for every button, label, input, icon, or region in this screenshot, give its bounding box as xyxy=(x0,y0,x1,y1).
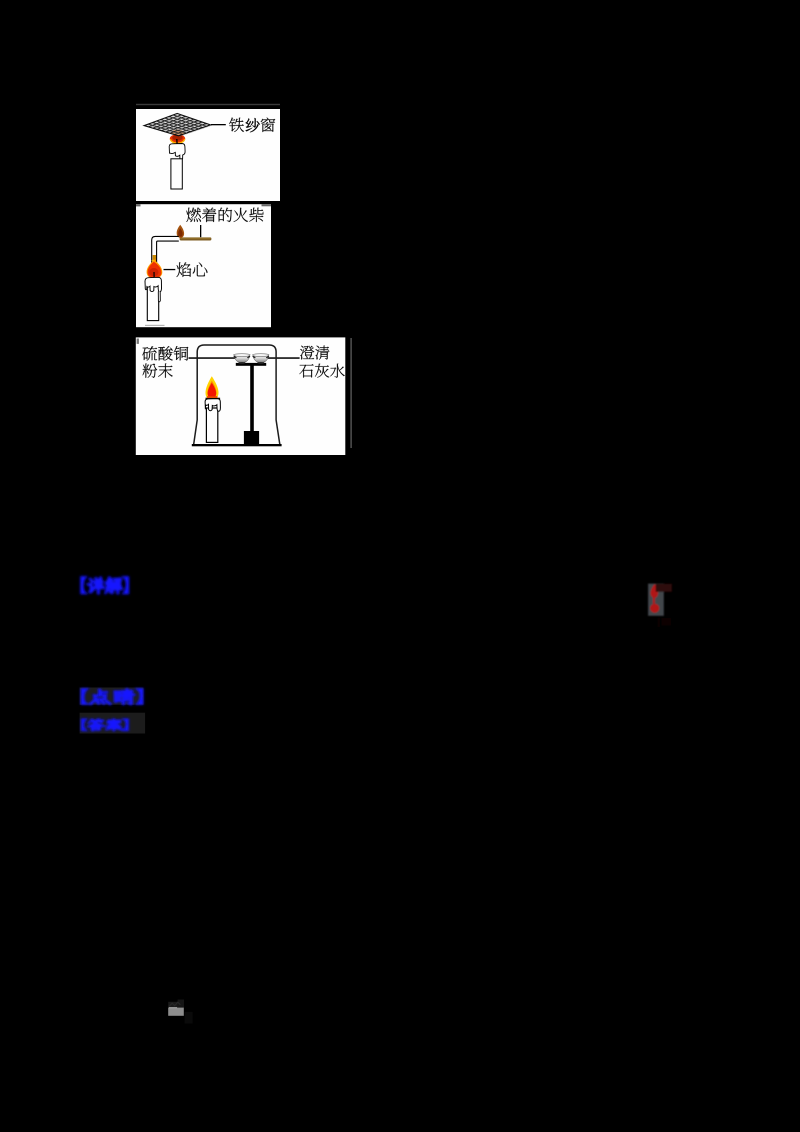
candle flame red core xyxy=(208,383,217,398)
candle flame (figure 3): outer yellow xyxy=(205,376,218,400)
candle body (figure 1) xyxy=(171,159,182,189)
candle body (figure 3) xyxy=(206,408,217,442)
jar base line xyxy=(192,444,282,446)
grey top border line above figure 1 xyxy=(136,104,280,105)
melted wax top of candle (figure 1) xyxy=(169,144,185,160)
grey rectangle of icon xyxy=(648,584,664,616)
iron gauze mesh (woven rhombus) xyxy=(144,113,212,138)
right watch glass xyxy=(253,354,269,364)
label text 铁纱窗 xyxy=(229,118,275,133)
label text 澄清 xyxy=(300,346,329,360)
label text 燃着的火柴 xyxy=(186,208,263,223)
grey dashed mark at candle base xyxy=(145,325,165,326)
stand top bar xyxy=(236,363,266,366)
bell jar outline xyxy=(194,345,280,444)
grey tick at top-left of panel 3 xyxy=(137,339,139,344)
long wax drip right side (figure 2) xyxy=(158,291,160,302)
leader line from label down to match xyxy=(200,225,201,237)
label text 石灰水 xyxy=(299,364,344,378)
label text 粉末 xyxy=(143,364,173,378)
match flame (small teardrop) xyxy=(177,225,184,238)
melted wax top of candle (figure 3) xyxy=(205,399,220,412)
red flame of icon xyxy=(651,584,658,598)
leader line from flame to label 焰心 xyxy=(164,269,176,270)
dark notch at top-left corner of panel 2 xyxy=(136,204,141,206)
candle flame (figure 1, under gauze) xyxy=(170,134,185,143)
dark top shape of folder icon xyxy=(168,1002,184,1008)
leader line from gauze to label xyxy=(211,124,226,125)
label text 硫酸铜 xyxy=(142,346,188,360)
glow inside tube bottom xyxy=(153,255,157,264)
left watch glass xyxy=(234,354,250,364)
candle wick (figure 2) xyxy=(153,272,155,280)
stand stem xyxy=(250,366,254,433)
grey body of folder icon xyxy=(168,1008,184,1016)
candle wick (figure 1) xyxy=(176,139,178,146)
dark red rectangle right of icon xyxy=(656,584,672,592)
glass elbow tube (double line) xyxy=(152,236,179,264)
candle body (figure 2) xyxy=(147,284,158,321)
melted wax cap (figure 2) xyxy=(145,277,162,292)
faint dark marks below icon xyxy=(658,618,659,627)
label text 焰心 xyxy=(177,262,208,277)
candle flame (figure 2) xyxy=(147,260,163,279)
white panel of figure 1 xyxy=(136,109,280,201)
grey vertical line right of panel 3 xyxy=(350,338,351,448)
horizontal leader line across jar xyxy=(189,357,237,359)
stand base block xyxy=(244,431,259,445)
faint dark block right-below icon xyxy=(185,1012,193,1024)
burning match stick (brown) xyxy=(180,237,212,240)
dark wick band under flame xyxy=(206,398,221,400)
white panel of figure 3 xyxy=(136,337,345,455)
white panel of figure 2 xyxy=(136,204,271,327)
dark notch at top-right corner of panel 2 xyxy=(262,204,272,206)
candle flame middle orange xyxy=(207,381,216,399)
